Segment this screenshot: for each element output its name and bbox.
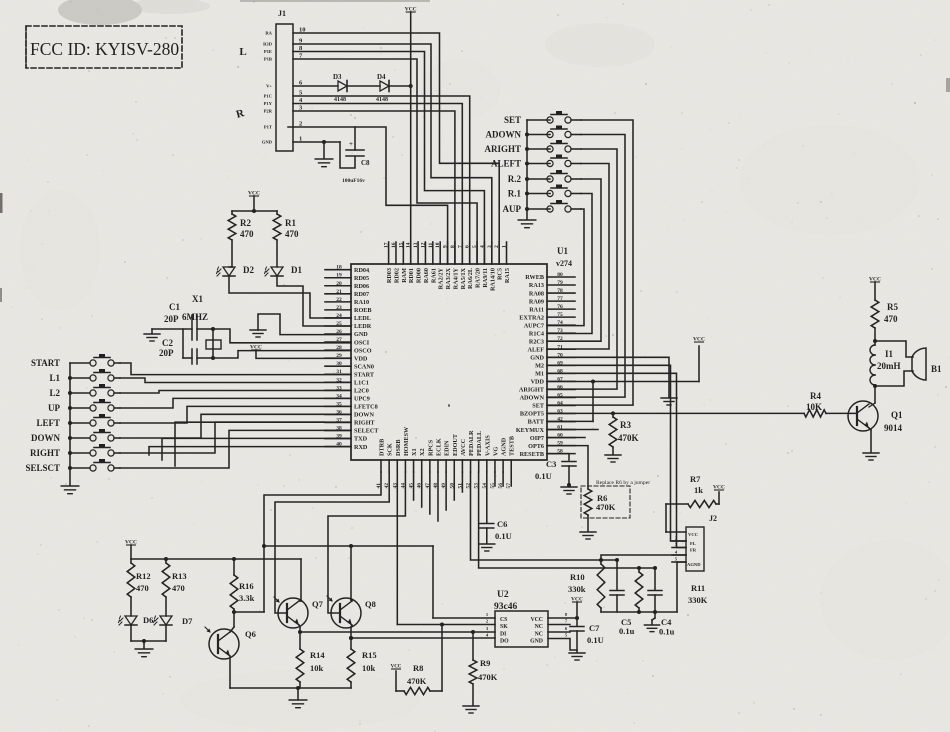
speaker B1	[912, 348, 942, 380]
wire cluster to J2 pin4	[601, 555, 686, 560]
wire Q8 emitter to R15	[349, 625, 353, 649]
wire J2 AGND to rail	[677, 562, 686, 612]
wire J1 pin10 to U1	[293, 33, 499, 264]
wire L1 to U1 pin 32	[120, 378, 351, 383]
wire U1 pin41 net	[262, 472, 381, 612]
wire R.1 to U1 pin 73	[547, 194, 592, 334]
capacitor C5	[610, 560, 635, 636]
wire U1 pin63 to R4	[547, 411, 804, 415]
ground D6 D7	[135, 649, 153, 657]
label R (right port)	[235, 107, 247, 121]
capacitor C3	[535, 459, 576, 481]
ground R9	[463, 706, 479, 713]
resistor R8	[396, 625, 442, 695]
wire Q7 emitter to R14	[299, 625, 300, 649]
capacitor C6	[480, 519, 512, 541]
op-amp U1 microcontroller body	[351, 246, 572, 460]
push button SET	[504, 111, 581, 125]
push button L2	[49, 384, 120, 398]
wire VDD junction to BATT pin62	[547, 382, 593, 422]
wire J1 pin6 to D3	[293, 85, 338, 87]
wire L2 to U1 pin 33	[120, 391, 351, 394]
wire U1 pin44 to Q8 base	[328, 472, 405, 613]
wire driver VCC rail	[131, 557, 301, 561]
crystal X1	[206, 327, 221, 360]
connector J1 pin names	[262, 31, 273, 145]
power VCC C7	[571, 597, 583, 627]
FCC ID label box	[26, 26, 182, 68]
wire Q6 emitter	[229, 656, 231, 688]
wire C3 to ground	[567, 466, 571, 487]
wire CS net	[264, 544, 433, 618]
wire right button bus	[525, 120, 529, 219]
wire U1 pin69 M2 to J2	[547, 365, 686, 541]
wire VCC to U1 top pin 14	[410, 86, 412, 264]
push button RIGHT	[30, 444, 120, 458]
ground U1 GND pin26	[250, 314, 351, 337]
capacitor C4	[648, 568, 675, 637]
capacitor C7	[570, 623, 604, 645]
ground left buttons	[61, 486, 79, 494]
wire LEFT to U1 pin 35	[120, 406, 351, 423]
wire UP to U1 pin 34	[120, 398, 351, 408]
wire D3 to D4	[347, 85, 380, 87]
wire R1 to D1	[276, 240, 278, 267]
resistor R14	[296, 649, 325, 688]
resistor R3	[609, 413, 638, 454]
U1 left pins 18-40	[325, 265, 379, 451]
wire CS to U2	[433, 617, 495, 619]
wire U1 pin43 to U2 SK	[397, 472, 495, 627]
push button UP	[48, 399, 120, 413]
wire R16 node to Q6	[230, 612, 234, 632]
wire U1 pin60 OIP7 stub	[547, 437, 585, 439]
resistor R15	[347, 649, 376, 688]
wire SELSCT to U1 pin 38	[120, 430, 351, 468]
wire R16 node right	[234, 611, 264, 613]
ic U2 pin numbers	[486, 612, 568, 638]
resistor R16	[230, 559, 254, 614]
wire D4 to VCC rail	[389, 84, 413, 88]
wire U1 pin68 M1 to J2	[547, 373, 686, 547]
ground R6	[580, 532, 596, 539]
wire DOWN to U1 pin 36	[120, 414, 351, 438]
wire J1 pin7 to U1	[293, 59, 477, 264]
power VCC top	[405, 7, 417, 87]
wire U1 pin67 VDD to VCC	[547, 346, 699, 384]
wire R2 to D2	[229, 240, 232, 267]
wire J1 pin4 to U1	[293, 104, 462, 265]
push button R.1	[508, 185, 581, 199]
note replace R6	[581, 480, 650, 518]
wire D6 D7 cathodes	[131, 625, 166, 648]
wire crystal left bus	[152, 329, 213, 358]
push button ALEFT	[491, 155, 581, 169]
capacitor C1	[164, 294, 208, 340]
ground U1 pin70 GND	[547, 357, 677, 405]
connector J2	[686, 514, 717, 571]
push button START	[31, 354, 120, 368]
push button R.2	[508, 170, 581, 184]
wire RIGHT to U1 pin 37	[120, 422, 351, 453]
ground J1	[315, 159, 333, 167]
resistor R1	[273, 214, 299, 240]
resistor R9	[469, 632, 498, 705]
wire Q7 collector	[299, 559, 301, 601]
wire U1 pin39 TXD stub	[162, 438, 351, 460]
capacitor C2	[159, 338, 197, 364]
ic U2 93c46 body	[494, 590, 548, 647]
ground C7	[569, 653, 585, 660]
wire left button bus	[68, 363, 72, 485]
wire J1 pin3 to U1	[293, 111, 455, 264]
power VCC R8	[391, 665, 402, 670]
LED D7	[154, 616, 194, 626]
wire I1 to Q1 collector	[869, 384, 877, 407]
connector J1	[276, 9, 293, 151]
wire DO line	[349, 636, 495, 640]
wire U1 pin58 RESETB to C3	[547, 454, 569, 460]
push button SELSCT	[25, 459, 120, 473]
wire U2 VCC pin to C7	[548, 616, 579, 620]
wire crystal to OSCO pin28	[213, 351, 351, 358]
wire crystal to OSCI pin27	[213, 329, 351, 343]
ground Q1	[863, 453, 879, 460]
U1 top pins 17-1	[384, 242, 511, 291]
wire J1 pin2 to U1	[288, 127, 448, 264]
ground R3	[605, 455, 621, 462]
wire speaker bottom	[875, 371, 913, 386]
wire R5 to I1	[873, 328, 877, 343]
wire stub tails U1 bottom pins	[414, 472, 512, 521]
wire U1 pin42 to Q7 base	[275, 472, 389, 613]
wire ARIGHT to U1 pin 66	[547, 149, 617, 389]
inductor I1	[870, 341, 901, 386]
resistor R11	[635, 568, 708, 612]
connector J1 pin numbers	[299, 27, 306, 143]
wire D1 to U1 pin25 LEDR	[277, 276, 351, 326]
diode D3	[333, 73, 347, 103]
wire U2 GND pin	[548, 639, 577, 651]
transistor Q6	[205, 627, 256, 659]
wire stub bend a	[175, 422, 325, 466]
power VCC for R1 R2	[248, 191, 260, 214]
push button L1	[49, 369, 120, 383]
push button AUP	[503, 200, 582, 214]
wire R6 to ground	[587, 515, 589, 531]
LED D1	[265, 265, 303, 276]
push button ADOWN	[486, 126, 582, 140]
wire C7 to ground	[576, 631, 578, 652]
wire ALEFT to U1 pin 71	[547, 164, 609, 350]
wire AUP to U1 pin 74	[547, 209, 584, 326]
scan edge artifacts	[0, 0, 950, 302]
wire U1 pin38 stub bend	[325, 429, 351, 431]
wire ADOWN to U1 pin 65	[547, 135, 625, 398]
wire U1 pin53 PEDALL to R11 net	[479, 472, 657, 570]
transistor Q8	[327, 596, 376, 628]
transistor Q1	[848, 401, 903, 433]
ground C4	[644, 612, 659, 632]
power VCC driver rail	[125, 540, 137, 560]
power VCC R7	[713, 485, 725, 505]
resistor R10	[568, 560, 605, 612]
wire SET to U1 pin 64	[547, 120, 633, 405]
resistor R6	[584, 489, 616, 515]
resistor R5	[871, 300, 898, 328]
push button ARIGHT	[484, 140, 581, 154]
wire J1 pin1 ground net	[293, 140, 355, 168]
wire D2 to U1 pin24 LEDL	[229, 276, 351, 318]
wire J1 pin9 to U1	[293, 44, 492, 264]
wire VCC split to R2 R1	[232, 211, 277, 214]
wire C6 to ground	[486, 528, 488, 543]
wire U1 pin52 PEDALR to R10 net	[471, 472, 620, 562]
ground crystal	[144, 334, 160, 341]
wire J1 pin5 to U1	[293, 96, 470, 264]
ground C6	[479, 544, 495, 551]
resistor R7	[666, 474, 719, 508]
wire U1 pin59 OPT6 to R6	[547, 446, 588, 489]
capacitor C8	[342, 127, 370, 184]
ground C3	[561, 487, 577, 494]
wire R7 to J2 pin1	[666, 504, 686, 532]
connector J2 pin stubs	[672, 536, 686, 563]
diode D4	[376, 73, 389, 103]
LED D6	[119, 615, 154, 625]
push button DOWN	[31, 429, 120, 443]
wire U1 pin61 KEYMUX	[547, 429, 598, 431]
wire Q8 collector	[351, 546, 352, 601]
resistor R13	[162, 559, 186, 616]
power VCC to VDD pin29	[250, 345, 351, 359]
wire R.2 to U1 pin 72	[547, 179, 601, 341]
resistor R2	[228, 214, 254, 240]
U1 right pins 80-58	[516, 272, 575, 458]
wire DI line	[298, 630, 495, 634]
LED D2	[217, 265, 255, 276]
power VCC speaker	[869, 277, 881, 301]
resistor R4	[804, 391, 826, 417]
resistor R12	[127, 559, 150, 616]
ground driver rail	[289, 688, 307, 708]
U1 bottom pins 41-57	[376, 426, 516, 489]
wire cluster bottom rail	[601, 610, 677, 614]
wire driver emitter rail	[230, 686, 351, 690]
ground right buttons	[518, 220, 536, 228]
power VCC right of U1	[693, 337, 705, 343]
wire R4 to Q1 base	[826, 412, 857, 414]
wire J1 pin8 to U1	[293, 52, 484, 265]
wire U1 pin54 V-AXIS to C6	[486, 472, 488, 523]
wire U2 NC pins	[548, 625, 570, 633]
label L (left port)	[239, 46, 246, 58]
transistor Q7	[274, 597, 324, 628]
wire U1 pin40 RXD stub	[149, 447, 351, 455]
wire speaker top	[875, 341, 913, 357]
push button LEFT	[36, 414, 120, 428]
wire Q1 emitter to ground	[869, 428, 871, 452]
wire START to U1 pin 31	[120, 363, 351, 375]
